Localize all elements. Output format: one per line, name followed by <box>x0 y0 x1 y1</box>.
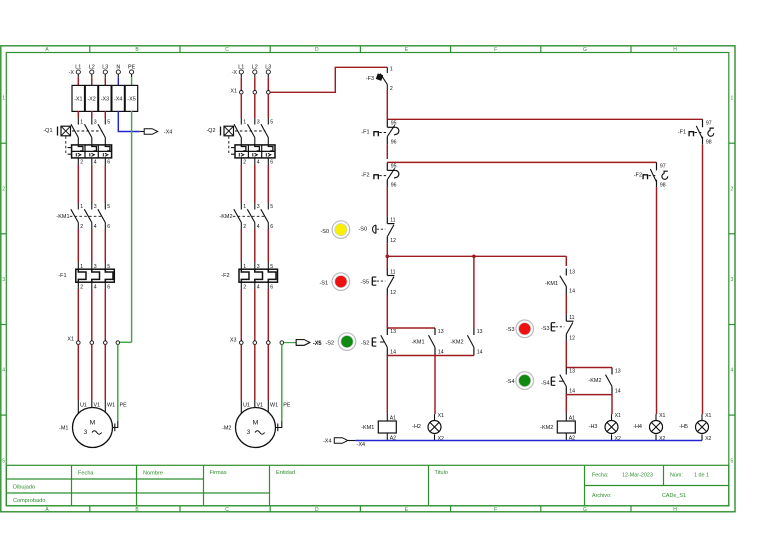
svg-text:2: 2 <box>80 285 83 291</box>
svg-text:3: 3 <box>257 204 260 210</box>
svg-text:4: 4 <box>257 160 260 166</box>
svg-text:-F2: -F2 <box>361 173 369 179</box>
svg-text:-S0: -S0 <box>320 229 329 235</box>
svg-text:-X4: -X4 <box>357 442 366 448</box>
svg-text:X1: X1 <box>438 413 444 419</box>
svg-text:Comprobado: Comprobado <box>13 498 45 504</box>
svg-text:-S2: -S2 <box>325 340 334 346</box>
svg-text:Archivo:: Archivo: <box>592 493 611 499</box>
svg-text:-X3: -X3 <box>101 97 109 103</box>
svg-text:N: N <box>116 64 120 70</box>
svg-text:5: 5 <box>731 458 734 464</box>
svg-text:-M1: -M1 <box>59 426 68 432</box>
svg-text:2: 2 <box>80 160 83 166</box>
svg-text:3: 3 <box>94 204 97 210</box>
svg-text:C: C <box>225 507 229 513</box>
svg-text:6: 6 <box>270 224 273 230</box>
svg-text:4: 4 <box>2 368 5 374</box>
svg-text:L2: L2 <box>252 64 258 70</box>
svg-text:95: 95 <box>391 121 397 127</box>
svg-text:X2: X2 <box>705 436 711 442</box>
svg-text:1: 1 <box>2 96 5 102</box>
svg-text:H: H <box>673 47 677 53</box>
svg-text:-M2: -M2 <box>222 426 231 432</box>
svg-text:14: 14 <box>569 289 575 295</box>
svg-text:1: 1 <box>390 66 393 72</box>
svg-text:6: 6 <box>107 160 110 166</box>
svg-text:4: 4 <box>257 224 260 230</box>
svg-text:12-Mar-2023: 12-Mar-2023 <box>622 473 653 479</box>
svg-text:-F1: -F1 <box>678 130 686 136</box>
svg-text:4: 4 <box>94 224 97 230</box>
svg-text:-H2: -H2 <box>412 424 421 430</box>
svg-text:Dibujado: Dibujado <box>13 485 35 491</box>
svg-text:1 de 1: 1 de 1 <box>694 473 709 479</box>
svg-text:11: 11 <box>390 269 395 275</box>
svg-text:3: 3 <box>247 429 251 436</box>
svg-text:96: 96 <box>391 183 397 189</box>
svg-text:CADe_S1: CADe_S1 <box>662 493 686 499</box>
svg-text:13: 13 <box>477 329 483 335</box>
svg-text:1: 1 <box>80 120 83 126</box>
svg-text:5: 5 <box>107 264 110 270</box>
svg-text:1: 1 <box>243 204 246 210</box>
svg-text:-F1: -F1 <box>361 130 369 136</box>
svg-text:X1: X1 <box>705 413 711 419</box>
svg-text:-X: -X <box>232 70 238 76</box>
svg-text:98: 98 <box>660 183 666 189</box>
svg-text:Titulo: Titulo <box>435 470 448 476</box>
svg-text:2: 2 <box>243 224 246 230</box>
svg-text:14: 14 <box>390 350 396 356</box>
svg-text:G: G <box>583 47 587 53</box>
svg-text:14: 14 <box>438 350 444 356</box>
svg-text:M: M <box>253 420 259 427</box>
svg-text:-KM2: -KM2 <box>540 425 553 431</box>
svg-text:G: G <box>583 507 587 513</box>
svg-text:97: 97 <box>706 121 712 127</box>
svg-text:1: 1 <box>243 264 246 270</box>
svg-text:C: C <box>225 47 229 53</box>
svg-text:5: 5 <box>270 204 273 210</box>
svg-text:-KM2: -KM2 <box>219 214 232 220</box>
svg-text:2: 2 <box>731 186 734 192</box>
svg-text:14: 14 <box>477 350 483 356</box>
svg-text:Firmas: Firmas <box>210 470 227 476</box>
svg-text:X1: X1 <box>615 413 621 419</box>
svg-text:-X1: -X1 <box>74 97 82 103</box>
svg-text:2: 2 <box>2 186 5 192</box>
svg-text:97: 97 <box>660 164 666 170</box>
svg-text:6: 6 <box>270 160 273 166</box>
svg-text:-H3: -H3 <box>589 424 598 430</box>
svg-text:U1: U1 <box>243 402 250 408</box>
svg-text:3: 3 <box>731 277 734 283</box>
svg-text:13: 13 <box>569 369 575 375</box>
svg-text:-F1: -F1 <box>58 273 66 279</box>
svg-text:Entidad: Entidad <box>276 470 295 476</box>
svg-text:X1: X1 <box>230 89 237 95</box>
svg-text:-S2: -S2 <box>361 340 370 346</box>
svg-text:-X5: -X5 <box>127 97 135 103</box>
svg-text:98: 98 <box>706 140 712 146</box>
svg-text:95: 95 <box>391 164 397 170</box>
svg-text:6: 6 <box>270 285 273 291</box>
svg-text:6: 6 <box>107 224 110 230</box>
svg-text:F: F <box>494 47 497 53</box>
svg-text:-Q1: -Q1 <box>43 128 52 134</box>
svg-text:13: 13 <box>390 329 396 335</box>
svg-text:-Q2: -Q2 <box>206 128 215 134</box>
svg-text:3: 3 <box>94 264 97 270</box>
svg-text:11: 11 <box>390 217 395 223</box>
svg-text:11: 11 <box>569 315 574 321</box>
svg-text:Fecha:: Fecha: <box>592 473 608 479</box>
svg-text:13: 13 <box>569 270 575 276</box>
svg-text:3: 3 <box>257 120 260 126</box>
svg-text:W1: W1 <box>270 402 278 408</box>
svg-text:-X4: -X4 <box>323 439 332 445</box>
svg-text:M: M <box>90 420 96 427</box>
svg-text:-S1: -S1 <box>319 281 328 287</box>
svg-text:D: D <box>315 507 319 513</box>
svg-text:L1: L1 <box>75 64 81 70</box>
svg-text:5: 5 <box>107 204 110 210</box>
svg-text:-X: -X <box>69 70 75 76</box>
svg-text:X1: X1 <box>659 413 665 419</box>
svg-text:2: 2 <box>243 285 246 291</box>
svg-text:12: 12 <box>390 290 396 296</box>
svg-text:-S4: -S4 <box>506 379 515 385</box>
svg-text:96: 96 <box>391 140 397 146</box>
svg-text:-KM2: -KM2 <box>450 339 463 345</box>
svg-text:-X4: -X4 <box>164 130 173 136</box>
svg-text:X3: X3 <box>230 338 237 344</box>
svg-text:3: 3 <box>257 264 260 270</box>
svg-text:X1: X1 <box>67 337 74 343</box>
svg-text:L1: L1 <box>238 64 244 70</box>
svg-text:-H5: -H5 <box>679 424 688 430</box>
svg-text:-X5: -X5 <box>313 341 322 347</box>
svg-text:2: 2 <box>390 86 393 92</box>
svg-text:PE: PE <box>128 64 136 70</box>
svg-text:1: 1 <box>80 264 83 270</box>
svg-text:A1: A1 <box>569 415 575 421</box>
svg-text:3: 3 <box>94 120 97 126</box>
svg-text:3: 3 <box>2 277 5 283</box>
svg-text:F: F <box>494 507 497 513</box>
svg-text:5: 5 <box>270 264 273 270</box>
svg-text:Nombre: Nombre <box>143 471 163 477</box>
svg-text:-F3: -F3 <box>366 76 374 82</box>
svg-text:1: 1 <box>243 120 246 126</box>
svg-text:14: 14 <box>615 389 621 395</box>
svg-text:-F2: -F2 <box>221 273 229 279</box>
svg-text:5: 5 <box>107 120 110 126</box>
svg-text:4: 4 <box>94 160 97 166</box>
svg-text:PE: PE <box>283 402 291 408</box>
svg-text:L2: L2 <box>89 64 95 70</box>
svg-text:H: H <box>673 507 677 513</box>
svg-text:-KM1: -KM1 <box>56 214 69 220</box>
svg-text:4: 4 <box>257 285 260 291</box>
svg-text:-KM1: -KM1 <box>545 281 558 287</box>
svg-text:-S5: -S5 <box>360 280 369 286</box>
svg-text:12: 12 <box>569 336 575 342</box>
svg-text:4: 4 <box>731 368 734 374</box>
svg-text:-S4: -S4 <box>541 380 550 386</box>
svg-text:-KM1: -KM1 <box>411 339 424 345</box>
svg-text:3: 3 <box>84 429 88 436</box>
svg-text:13: 13 <box>438 329 444 335</box>
svg-text:1: 1 <box>731 96 734 102</box>
svg-text:13: 13 <box>615 369 621 375</box>
svg-text:5: 5 <box>2 458 5 464</box>
svg-text:A1: A1 <box>390 415 396 421</box>
svg-text:L3: L3 <box>102 64 108 70</box>
svg-text:L3: L3 <box>265 64 271 70</box>
svg-text:U1: U1 <box>80 402 87 408</box>
svg-text:5: 5 <box>270 120 273 126</box>
svg-text:2: 2 <box>243 160 246 166</box>
svg-text:-S0: -S0 <box>358 227 367 233</box>
svg-text:-H4: -H4 <box>633 424 642 430</box>
svg-text:4: 4 <box>94 285 97 291</box>
svg-text:14: 14 <box>569 389 575 395</box>
svg-text:PE: PE <box>120 402 128 408</box>
svg-text:1: 1 <box>80 204 83 210</box>
svg-text:W1: W1 <box>107 402 115 408</box>
svg-text:Núm:: Núm: <box>670 473 683 479</box>
svg-text:-F2: -F2 <box>634 173 642 179</box>
svg-text:-X4: -X4 <box>114 97 122 103</box>
svg-text:-S3: -S3 <box>506 327 515 333</box>
svg-text:-S3: -S3 <box>541 326 550 332</box>
svg-text:-KM2: -KM2 <box>588 378 601 384</box>
svg-text:-KM1: -KM1 <box>361 425 374 431</box>
svg-text:D: D <box>315 47 319 53</box>
svg-text:-X2: -X2 <box>87 97 95 103</box>
svg-text:6: 6 <box>107 285 110 291</box>
svg-text:12: 12 <box>390 238 396 244</box>
svg-text:2: 2 <box>80 224 83 230</box>
svg-text:Fecha: Fecha <box>78 471 94 477</box>
